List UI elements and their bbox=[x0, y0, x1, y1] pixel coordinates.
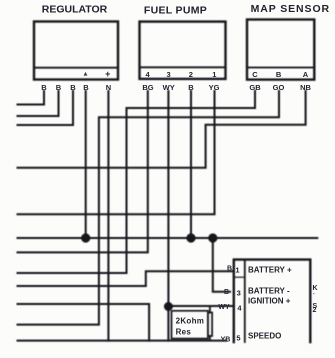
svg-text:BG: BG bbox=[142, 83, 153, 92]
wire MAP sensor pin A (NB) bbox=[18, 91, 306, 168]
wire regulator pin3 B to left bus bbox=[18, 91, 74, 125]
svg-text:3: 3 bbox=[167, 70, 171, 79]
svg-text:MAP SENSOR: MAP SENSOR bbox=[251, 3, 330, 15]
svg-text:B: B bbox=[56, 83, 62, 92]
svg-text:C: C bbox=[252, 70, 258, 79]
wire fuel pump pin4 BG bbox=[18, 91, 148, 252]
wire horizontal bus at y238 bbox=[18, 237, 318, 239]
svg-text:BATTERY -: BATTERY - bbox=[248, 287, 290, 296]
MAP sensor connector box bbox=[247, 20, 314, 80]
svg-text:YG: YG bbox=[209, 83, 220, 92]
svg-text:BATTERY +: BATTERY + bbox=[248, 266, 292, 275]
svg-text:1: 1 bbox=[212, 70, 216, 79]
svg-text:B: B bbox=[276, 70, 282, 79]
wire ignition row3 from WY junction to ECU bbox=[168, 305, 233, 307]
junction dot WY ignition tap bbox=[164, 302, 173, 311]
svg-text:B: B bbox=[41, 83, 47, 92]
svg-text:SPEEDO: SPEEDO bbox=[248, 332, 281, 341]
svg-text:+: + bbox=[105, 69, 110, 79]
svg-text:2: 2 bbox=[313, 307, 317, 314]
wire regulator pin1 B to left bus bbox=[18, 91, 45, 105]
wire MAP sensor pin B (GO) bbox=[18, 91, 280, 325]
svg-text:B: B bbox=[224, 289, 229, 296]
wire speedo line bottom bbox=[18, 340, 227, 342]
svg-text:FUEL PUMP: FUEL PUMP bbox=[144, 5, 207, 17]
ECU connector box bbox=[234, 260, 310, 342]
svg-text:A: A bbox=[303, 70, 309, 79]
wire regulator pin2 B to left bus bbox=[18, 91, 59, 116]
wire fuel pump pin1 YG to left bus bbox=[18, 91, 215, 214]
wire left stub to speedo line via drop bbox=[18, 304, 150, 341]
svg-text:N: N bbox=[106, 83, 111, 92]
wire fuel pump pin3 WY down through junction to speedo line bbox=[167, 91, 169, 341]
junction dot battery minus tap at bus bbox=[208, 233, 217, 242]
svg-text:B: B bbox=[227, 266, 232, 273]
svg-text:WY: WY bbox=[218, 304, 230, 311]
svg-text:2Kohm: 2Kohm bbox=[176, 317, 205, 326]
svg-text:5: 5 bbox=[236, 334, 240, 343]
wire MAP sensor pin C (GB) bbox=[18, 91, 256, 273]
svg-text:4: 4 bbox=[237, 304, 242, 313]
svg-text:IGNITION +: IGNITION + bbox=[248, 297, 291, 306]
svg-text:REGULATOR: REGULATOR bbox=[42, 3, 108, 15]
svg-text:GB: GB bbox=[249, 83, 261, 92]
svg-text:NB: NB bbox=[300, 83, 311, 92]
svg-text:B: B bbox=[83, 83, 89, 92]
svg-text:3: 3 bbox=[237, 289, 241, 298]
regulator connector U1 box bbox=[34, 22, 118, 80]
wire battery minus from junction to ECU row2 bbox=[213, 238, 230, 292]
wire fuel pump pin2 B down to junction bbox=[190, 91, 192, 238]
svg-text:B: B bbox=[70, 83, 76, 92]
svg-text:4: 4 bbox=[146, 70, 151, 79]
resistor R1 bottom stub bbox=[209, 336, 211, 341]
wire regulator pin4 B down to junction bbox=[85, 91, 87, 238]
fuel pump connector box bbox=[140, 22, 226, 79]
svg-text:YB: YB bbox=[221, 337, 231, 344]
junction dot on regulator pin4 at bus bbox=[81, 233, 90, 242]
resistor label box bbox=[172, 311, 208, 339]
regulator minus mark bbox=[84, 72, 88, 76]
svg-text:2: 2 bbox=[189, 70, 193, 79]
wire battery plus feed with jog bbox=[18, 271, 234, 286]
svg-text:Res: Res bbox=[176, 328, 192, 337]
resistor R1 top stub bbox=[209, 306, 211, 313]
svg-text:B: B bbox=[188, 83, 194, 92]
resistor R1 body bbox=[208, 313, 212, 337]
svg-text:WY: WY bbox=[163, 83, 175, 92]
svg-text:1: 1 bbox=[235, 266, 239, 275]
wire regulator pin5 N down to speedo line bbox=[107, 91, 109, 341]
svg-text:GO: GO bbox=[273, 83, 285, 92]
junction dot on fuel pump pin2 at bus bbox=[186, 233, 195, 242]
